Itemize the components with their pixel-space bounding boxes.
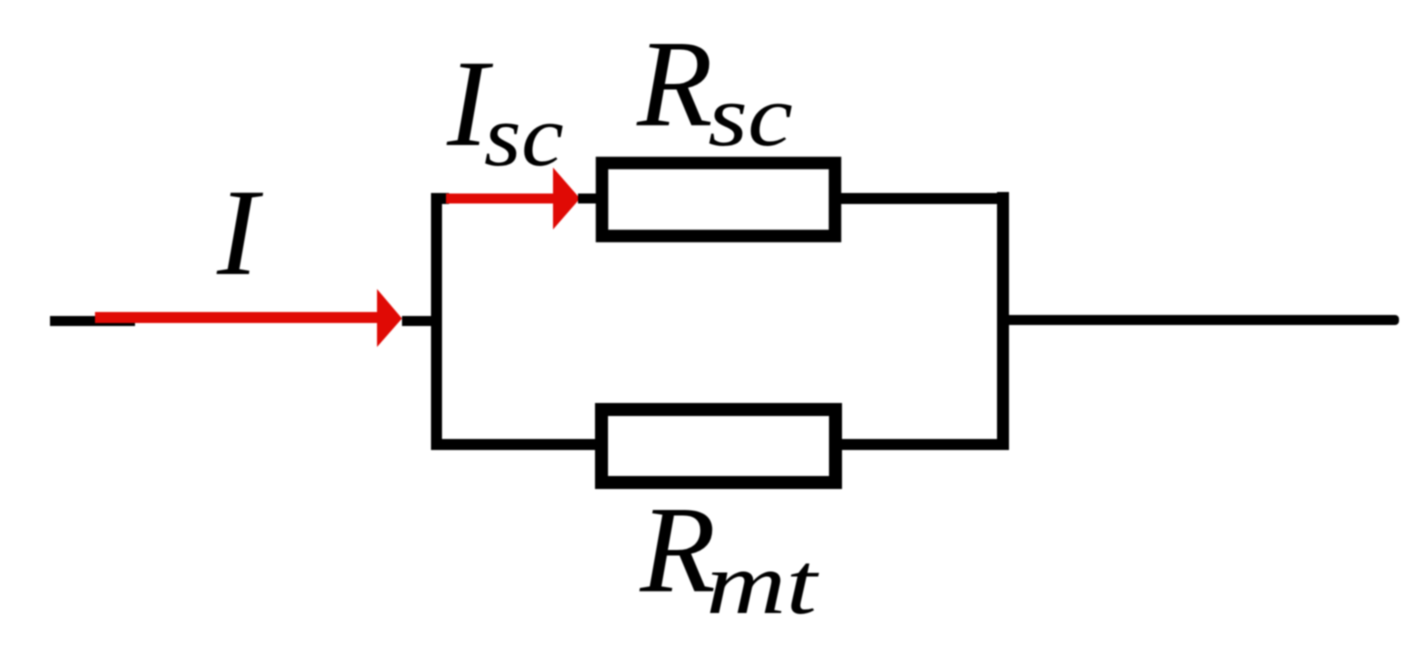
svg-text:I: I [216, 164, 264, 301]
svg-text:mt: mt [706, 535, 819, 633]
wire output right [1003, 315, 1399, 325]
wire top branch corner segment [431, 193, 449, 204]
wire main input left segment [50, 316, 135, 326]
wire junction stub into node A [402, 316, 442, 326]
svg-text:R: R [636, 15, 713, 152]
wire into resistor Rsc [578, 194, 598, 204]
svg-text:sc: sc [484, 86, 564, 184]
svg-text:sc: sc [708, 66, 793, 164]
resistor R_mt body [602, 410, 836, 483]
current arrow I head [377, 289, 402, 347]
current arrow I shaft [95, 312, 381, 323]
wire bottom branch left segment [431, 439, 601, 450]
wire from Rmt to right bus [842, 439, 1004, 450]
resistor R_sc body [602, 163, 835, 236]
current arrow Isc head [553, 168, 580, 230]
svg-text:R: R [639, 481, 716, 618]
node A left vertical bus [431, 193, 442, 450]
current arrow Isc shaft [446, 194, 556, 204]
node B right vertical bus [997, 192, 1009, 450]
wire from Rsc to right bus [841, 193, 1003, 204]
